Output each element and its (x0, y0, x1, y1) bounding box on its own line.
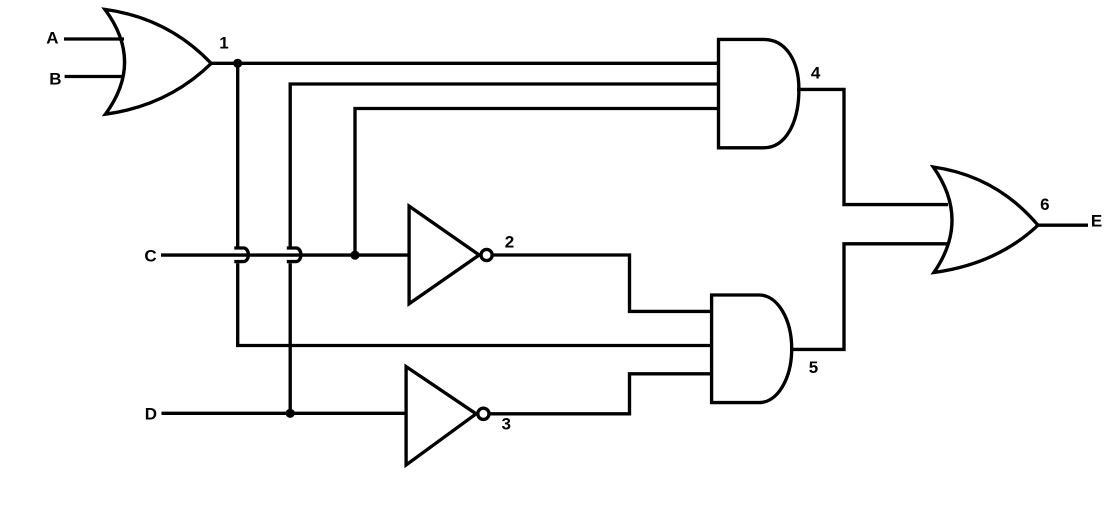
hop: node1 wire jumps over C wire (234, 248, 248, 262)
svg-text:3: 3 (501, 415, 510, 434)
svg-text:C: C (144, 246, 156, 265)
svg-text:B: B (49, 69, 61, 88)
hop: D-branch wire jumps over C wire (287, 248, 301, 262)
wire input C (161, 253, 409, 256)
and-gate 4 (719, 39, 799, 147)
svg-text:2: 2 (505, 233, 514, 252)
wire inverter2 output to and5 input1 (492, 255, 711, 311)
wire input B (65, 75, 124, 78)
wire output E (1038, 224, 1088, 227)
wire input A (64, 37, 124, 40)
svg-text:4: 4 (811, 64, 821, 83)
wire node1 down then right to and5 input2 (238, 263, 712, 345)
wire node1 down (upper segment, to hop) (236, 63, 239, 247)
wire from hop down to D junction (289, 263, 292, 413)
inverter 2 bubble (481, 249, 492, 260)
wire and4 input3 from C junction (355, 109, 719, 256)
svg-text:5: 5 (809, 358, 818, 377)
and-gate 5 (712, 295, 792, 403)
svg-text:6: 6 (1040, 195, 1049, 214)
or-gate 6 (933, 167, 1038, 273)
svg-text:A: A (46, 29, 58, 48)
wire and5 output to or6 bottom input (790, 244, 947, 350)
inverter 2 triangle (409, 206, 479, 304)
svg-text:1: 1 (219, 33, 228, 52)
wire inverter3 output to and5 input3 (490, 374, 712, 414)
junction dot on C wire (350, 251, 359, 260)
wire and4 input2 from vertical x=290 (290, 84, 718, 247)
or-gate 1 (inputs A,B) (105, 9, 211, 114)
inverter 3 bubble (478, 408, 489, 419)
svg-text:E: E (1091, 211, 1102, 230)
wire and4 output to or6 top input (797, 89, 948, 204)
wire or1 output to and4 input1 (net 1) (211, 62, 718, 65)
wire input D (162, 412, 407, 415)
junction node 1 (233, 59, 242, 68)
inverter 3 triangle (406, 367, 476, 465)
svg-text:D: D (145, 404, 157, 423)
junction dot on D wire (286, 409, 295, 418)
